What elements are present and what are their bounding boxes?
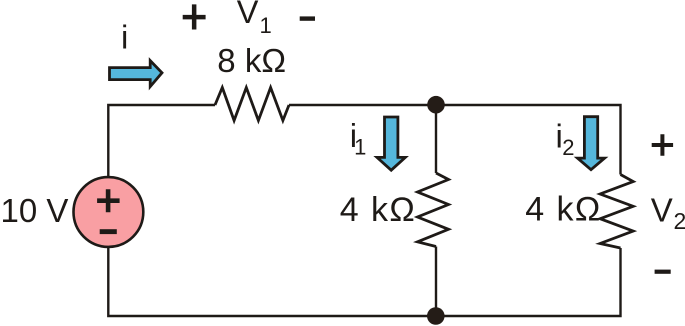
wire top-left segment bbox=[108, 105, 215, 178]
svg-text:4 kΩ: 4 kΩ bbox=[340, 191, 416, 229]
label minus of V2 bbox=[655, 270, 671, 274]
voltage source plus sign bbox=[97, 189, 120, 212]
node dot bottom bbox=[427, 307, 445, 325]
svg-text:1: 1 bbox=[260, 13, 272, 38]
label plus of V2 bbox=[652, 134, 673, 155]
current arrow i1 (down) bbox=[377, 117, 405, 170]
svg-text:V: V bbox=[651, 191, 673, 228]
wire bottom bbox=[108, 247, 620, 317]
wire middle branch bottom bbox=[435, 247, 437, 317]
wire top-right segment bbox=[289, 105, 621, 175]
svg-text:2: 2 bbox=[562, 135, 574, 160]
resistor R2 4k middle vertical bbox=[418, 173, 449, 247]
current arrow i2 (down) bbox=[578, 117, 605, 170]
voltage source minus sign bbox=[100, 229, 117, 234]
wire middle branch top bbox=[435, 105, 437, 173]
voltage source V 10V circle bbox=[74, 177, 144, 247]
current arrow i (right) bbox=[110, 61, 163, 87]
svg-text:1: 1 bbox=[354, 135, 366, 160]
resistor R1 8k horizontal bbox=[215, 88, 289, 121]
svg-text:i: i bbox=[121, 18, 128, 55]
svg-text:4 kΩ: 4 kΩ bbox=[525, 190, 601, 228]
node dot top bbox=[427, 96, 445, 114]
resistor R3 4k right vertical bbox=[600, 175, 633, 249]
svg-text:2: 2 bbox=[674, 208, 685, 234]
svg-text:8 kΩ: 8 kΩ bbox=[217, 42, 286, 79]
label minus of V1 bbox=[300, 16, 315, 20]
svg-text:10 V: 10 V bbox=[1, 192, 69, 229]
svg-text:V: V bbox=[237, 0, 259, 30]
label plus of V1 bbox=[183, 4, 206, 29]
